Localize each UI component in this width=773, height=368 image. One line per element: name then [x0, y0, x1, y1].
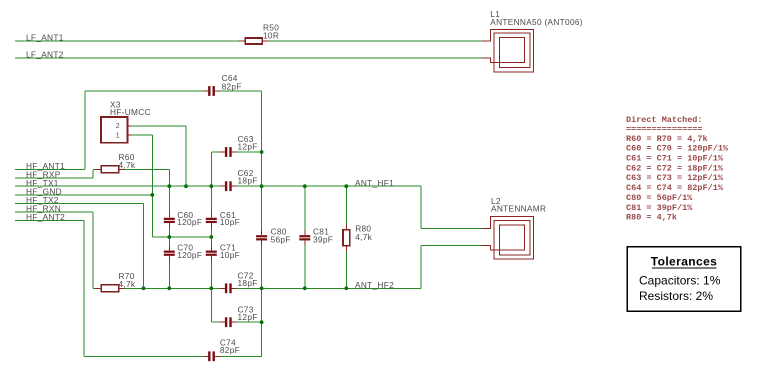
svg-text:HF-UMCC: HF-UMCC: [110, 107, 151, 117]
svg-text:C61 = C71 = 10pF/1%: C61 = C71 = 10pF/1%: [626, 154, 724, 164]
svg-text:LF_ANT1: LF_ANT1: [26, 33, 64, 43]
svg-text:R80 = 4,7k: R80 = 4,7k: [626, 213, 677, 223]
svg-text:C62 = C72 = 18pF/1%: C62 = C72 = 18pF/1%: [626, 163, 724, 173]
svg-text:120pF: 120pF: [177, 217, 202, 227]
svg-text:C80 = 56pF/1%: C80 = 56pF/1%: [626, 193, 693, 203]
svg-text:4,7k: 4,7k: [119, 279, 136, 289]
svg-text:10pF: 10pF: [220, 250, 240, 260]
svg-text:===============: ===============: [626, 124, 703, 134]
svg-text:Resistors: 2%: Resistors: 2%: [639, 289, 713, 303]
svg-text:12pF: 12pF: [238, 312, 258, 322]
svg-text:56pF: 56pF: [271, 234, 291, 244]
svg-text:18pF: 18pF: [238, 176, 258, 186]
svg-text:C60 = C70 = 120pF/1%: C60 = C70 = 120pF/1%: [626, 144, 729, 154]
svg-text:Tolerances: Tolerances: [651, 255, 717, 269]
svg-text:10R: 10R: [263, 30, 279, 40]
svg-text:18pF: 18pF: [238, 278, 258, 288]
svg-text:C63 = C73 = 12pF/1%: C63 = C73 = 12pF/1%: [626, 173, 724, 183]
svg-text:ANTENNA50 (ANT006): ANTENNA50 (ANT006): [490, 17, 583, 27]
svg-text:10pF: 10pF: [220, 217, 240, 227]
svg-text:4,7k: 4,7k: [119, 160, 136, 170]
svg-text:39pF: 39pF: [313, 234, 333, 244]
svg-text:82pF: 82pF: [220, 345, 240, 355]
svg-text:ANT_HF1: ANT_HF1: [355, 178, 394, 188]
svg-text:Direct Matched:: Direct Matched:: [626, 115, 703, 125]
svg-text:120pF: 120pF: [177, 250, 202, 260]
svg-text:1: 1: [116, 133, 120, 140]
svg-text:ANTENNAMR: ANTENNAMR: [491, 203, 546, 213]
svg-text:2: 2: [116, 123, 120, 130]
svg-text:82pF: 82pF: [222, 81, 242, 91]
svg-text:R60 = R70 = 4,7k: R60 = R70 = 4,7k: [626, 134, 708, 144]
svg-text:LF_ANT2: LF_ANT2: [26, 50, 64, 60]
svg-text:Capacitors: 1%: Capacitors: 1%: [639, 274, 721, 288]
svg-text:C64 = C74 = 82pF/1%: C64 = C74 = 82pF/1%: [626, 183, 724, 193]
svg-text:4,7k: 4,7k: [355, 232, 372, 242]
svg-text:C81 = 39pF/1%: C81 = 39pF/1%: [626, 203, 693, 213]
svg-text:12pF: 12pF: [238, 142, 258, 152]
svg-text:HF_ANT2: HF_ANT2: [26, 212, 65, 222]
svg-text:ANT_HF2: ANT_HF2: [355, 280, 394, 290]
